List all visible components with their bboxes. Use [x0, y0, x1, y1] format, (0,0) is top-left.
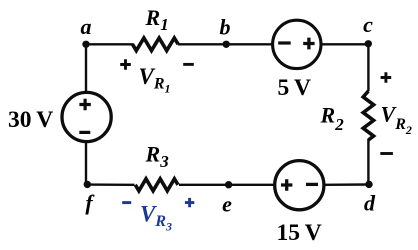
- wire bottom: node d to 15V source: [323, 183, 370, 186]
- wire top: 5V source to node c: [321, 43, 370, 45]
- source 5V circle: [273, 20, 321, 68]
- svg-text:R2: R2: [320, 102, 345, 133]
- svg-text:f: f: [85, 190, 95, 215]
- svg-text:d: d: [364, 190, 376, 215]
- svg-text:R1: R1: [145, 5, 169, 34]
- node b junction dot: [223, 41, 230, 48]
- resistor R1: [133, 38, 179, 51]
- minus sign inside 15V: [306, 183, 318, 186]
- source 15V circle: [275, 161, 324, 210]
- node d junction dot: [365, 181, 372, 188]
- svg-text:VR3: VR3: [140, 202, 172, 234]
- minus sign inside 30V: [79, 131, 90, 134]
- plus sign of VR2 polarity: [381, 72, 392, 83]
- svg-text:VR1: VR1: [139, 64, 171, 96]
- wire left: node a down to 30V source: [85, 43, 87, 92]
- wire right: node c down to resistor R2: [367, 43, 369, 91]
- svg-text:e: e: [222, 192, 232, 217]
- minus sign of VR2 polarity: [380, 152, 393, 155]
- svg-text:15 V: 15 V: [277, 220, 322, 246]
- minus sign of VR3 polarity (blue): [122, 201, 131, 204]
- resistor R2: [363, 91, 373, 140]
- wire top: node a to resistor R1: [85, 43, 134, 45]
- wire right: R2 down to node d: [367, 139, 369, 186]
- svg-text:30 V: 30 V: [8, 107, 53, 133]
- source 30V circle: [62, 92, 111, 141]
- plus sign of VR1 polarity: [120, 59, 131, 70]
- svg-text:R3: R3: [145, 142, 170, 172]
- plus sign of VR3 polarity (blue): [185, 198, 194, 207]
- minus sign inside 5V: [278, 41, 291, 44]
- plus sign inside 5V: [303, 38, 314, 50]
- wire bottom: R3 to node f: [86, 183, 135, 186]
- svg-text:c: c: [363, 12, 373, 37]
- wire top: R1 through node b to 5V source: [178, 43, 273, 45]
- wire left: 30V source down to node f: [85, 142, 87, 186]
- node a junction dot: [82, 41, 89, 48]
- plus sign inside 15V: [281, 179, 292, 190]
- node f junction dot: [84, 181, 91, 188]
- plus sign inside 30V: [79, 99, 90, 110]
- svg-text:a: a: [81, 14, 92, 39]
- node e junction dot: [225, 181, 232, 188]
- wire bottom: 15V source through node e to resistor R3: [179, 184, 275, 186]
- svg-text:VR2: VR2: [381, 102, 412, 138]
- minus sign of VR1 polarity: [183, 63, 194, 66]
- svg-text:5 V: 5 V: [278, 75, 311, 101]
- node c junction dot: [365, 40, 372, 47]
- svg-text:b: b: [220, 15, 231, 40]
- resistor R3: [135, 179, 178, 191]
